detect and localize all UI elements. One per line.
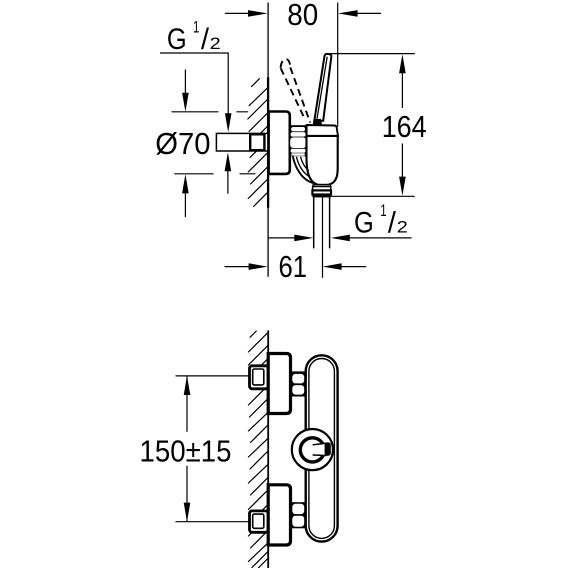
svg-text:61: 61 [279, 249, 308, 284]
lower escutcheon (front view) [268, 485, 290, 545]
control knob lever tab [313, 442, 331, 456]
wall line (side view) [267, 3, 269, 276]
svg-text:2: 2 [397, 217, 408, 236]
dimension 164 (right) [330, 54, 415, 197]
dimension 80 (top) [225, 3, 380, 126]
svg-text:80: 80 [287, 0, 318, 32]
supply pipe G1/2 (side view) [216, 133, 268, 151]
lower supply square fitting (front view) [250, 511, 269, 532]
mixer body stadium (front view) [306, 355, 338, 541]
dimension 61 (bottom) [225, 266, 366, 268]
lever handle, solid position [313, 54, 332, 125]
wall line (front view) [267, 331, 269, 568]
label G 1/2 (bottom, outlet) with dimension arrows [269, 237, 412, 239]
svg-text:Ø70: Ø70 [155, 126, 210, 161]
label G 1/2 (top left) with leader [161, 53, 229, 193]
svg-text:164: 164 [382, 109, 427, 144]
svg-text:2: 2 [210, 34, 221, 53]
wall hatching (front view) [248, 331, 267, 568]
lower connection nut (front view) [291, 502, 307, 528]
mixer body (side view) [307, 136, 338, 185]
dimension 150±15 leader lines [176, 376, 250, 522]
upper supply square fitting (front view) [250, 366, 269, 389]
upper escutcheon (front view) [268, 354, 290, 414]
svg-text:/: / [388, 206, 397, 239]
wall escutcheon Ø70 (side view) [269, 112, 290, 174]
union nut on supply pipe (side view) [250, 134, 264, 150]
wall hatching (side view) [248, 79, 268, 207]
connection nut with hex facets (side view) [290, 125, 307, 156]
svg-text:1: 1 [380, 201, 386, 220]
svg-text:150±15: 150±15 [140, 434, 232, 469]
control knob bold ring [300, 438, 324, 462]
svg-text:/: / [201, 23, 210, 56]
label text G 1/2 (top left) [167, 18, 221, 57]
lever handle, alternate position (dashed) [281, 59, 311, 122]
svg-text:1: 1 [193, 18, 199, 37]
outlet pipe G1/2 (side view) [314, 197, 330, 277]
svg-text:G: G [167, 23, 187, 56]
dimension Ø70 (left) [172, 70, 255, 217]
upper connection nut (front view) [291, 371, 307, 396]
body underside S-curves (side view) [293, 157, 313, 183]
body cap (side view) [307, 125, 338, 136]
svg-text:G: G [354, 206, 374, 239]
shower outlet stack (side view) [312, 185, 331, 198]
control knob outer circle (front view) [292, 429, 333, 470]
label text G 1/2 (bottom) [354, 201, 408, 240]
